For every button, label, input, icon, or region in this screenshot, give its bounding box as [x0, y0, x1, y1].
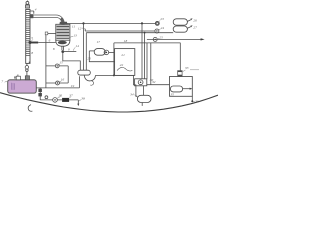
svg-text:26: 26 — [193, 18, 197, 22]
wire: vapor riser — [78, 76, 80, 88]
svg-text:13: 13 — [73, 34, 77, 38]
wire: drop 38 — [77, 100, 79, 105]
main line A — [67, 22, 156, 24]
column top fitting — [26, 0, 30, 8]
svg-text:34: 34 — [130, 93, 134, 97]
svg-text:5: 5 — [31, 36, 33, 40]
wire: bottoms line y75.4 — [96, 74, 134, 76]
tank right stub — [25, 76, 29, 80]
svg-text:6: 6 — [49, 38, 51, 42]
node A1 — [82, 22, 84, 24]
burner oval — [170, 86, 182, 92]
svg-text:17: 17 — [97, 40, 101, 44]
small curl under arc — [28, 105, 32, 112]
wire: feed line to condenser — [38, 42, 56, 44]
pump 36 — [53, 98, 58, 103]
furnace top valve — [177, 43, 182, 76]
tank left stub — [16, 76, 20, 80]
wire: upper tie line to condenser — [48, 33, 56, 35]
arrow row3 — [201, 38, 205, 40]
condenser bottom stub — [62, 46, 64, 50]
svg-text:38: 38 — [81, 96, 85, 100]
column bottom pump 8 — [25, 63, 28, 75]
box inner curve — [117, 67, 132, 71]
wire: drum34 feed — [142, 86, 144, 96]
wire: furnace feed — [147, 84, 170, 86]
label 34 leader — [134, 95, 137, 97]
collector header capsule — [78, 70, 91, 75]
svg-text:24: 24 — [161, 26, 165, 30]
wire: drop 18 to pumpbox — [146, 43, 148, 79]
wire: drop B2 to pumpbox — [144, 33, 146, 79]
wire: long vertical x=45.9 — [45, 35, 47, 88]
wire: riser between rows — [67, 66, 69, 83]
label 13 leader — [68, 36, 73, 38]
drum 17 — [94, 49, 105, 56]
pump 15 — [55, 64, 59, 68]
node on bottoms line — [113, 74, 115, 76]
svg-text:18: 18 — [124, 39, 128, 43]
wire: bottoms down to drum34 — [134, 75, 138, 96]
svg-text:21: 21 — [121, 53, 125, 57]
svg-text:4: 4 — [35, 8, 37, 12]
big bottom arc — [0, 93, 218, 112]
wire: drop A2 to pumpbox — [141, 23, 143, 78]
labels — [1, 8, 198, 104]
burner arrow — [183, 88, 190, 90]
wire: row15 — [46, 65, 68, 67]
wire: tank vapor line — [36, 87, 79, 89]
label 15 16 leaders — [57, 64, 71, 98]
line B to pump 24 — [85, 29, 155, 31]
svg-text:8: 8 — [53, 47, 55, 51]
label 5 — [31, 39, 33, 41]
pump 24 — [155, 29, 159, 33]
svg-text:25: 25 — [159, 35, 163, 39]
node B2 — [144, 32, 146, 34]
oval1 outlet arrow — [187, 20, 190, 22]
s-pipe from capsule — [84, 75, 95, 81]
junction node below condenser — [61, 50, 64, 53]
svg-text:20: 20 — [87, 56, 91, 60]
svg-text:39: 39 — [195, 100, 199, 104]
svg-text:12: 12 — [78, 26, 82, 30]
furnace box — [170, 77, 193, 97]
drain valve stack — [38, 88, 42, 100]
svg-text:33: 33 — [185, 66, 189, 70]
svg-text:36: 36 — [59, 93, 63, 97]
oval2 outlet arrow — [187, 27, 190, 28]
svg-text:19: 19 — [71, 84, 75, 88]
wire: drum inlet drop to box — [89, 51, 114, 62]
wire: thick feed segment — [30, 42, 38, 44]
svg-text:23: 23 — [160, 17, 164, 21]
feed junction dot on column — [29, 41, 32, 44]
column C1 body — [26, 10, 30, 64]
oval vessel 2 — [173, 26, 187, 32]
svg-text:32: 32 — [152, 80, 156, 84]
condenser bottom head — [56, 40, 70, 46]
label 38 leader — [79, 100, 82, 102]
tank left stub tick — [17, 75, 19, 77]
svg-text:16: 16 — [61, 78, 65, 82]
svg-text:9: 9 — [68, 48, 70, 52]
motor block 37 — [62, 98, 69, 102]
label 33 leader — [183, 70, 199, 72]
svg-text:11: 11 — [72, 24, 75, 28]
pump 16 — [56, 81, 60, 85]
label 4 — [30, 11, 34, 14]
wire: drop from B2 to capsule — [85, 33, 87, 70]
wire: drum inlet — [89, 50, 94, 52]
wire: drum34 outlet — [141, 103, 143, 106]
pump 23 — [155, 21, 159, 25]
small trap circle — [45, 96, 48, 99]
label 12 leader — [82, 27, 85, 30]
big box 21 — [115, 49, 135, 76]
line B2 — [86, 32, 173, 34]
pump 25 — [153, 37, 157, 41]
condenser E body — [56, 24, 70, 40]
label 7 leader — [5, 81, 8, 82]
svg-text:22: 22 — [120, 63, 124, 67]
valve on tie line — [45, 32, 48, 35]
pump box 30 — [135, 79, 147, 86]
svg-text:37: 37 — [69, 93, 73, 97]
label 14 leader — [73, 47, 75, 50]
svg-text:14: 14 — [75, 44, 79, 48]
wire: recycle riser — [150, 43, 152, 85]
oval vessel 1 — [173, 19, 187, 25]
wire: row16 — [46, 82, 68, 84]
svg-text:8: 8 — [31, 51, 33, 55]
svg-text:35: 35 — [171, 93, 175, 97]
wire: bottom pump row — [40, 99, 78, 101]
pump on drum — [104, 50, 109, 55]
line 18 — [114, 42, 181, 44]
svg-text:7: 7 — [1, 80, 3, 84]
label 23 leader — [157, 20, 160, 39]
small curl on s-pipe — [90, 81, 93, 85]
wire: condensate to capsule — [63, 52, 81, 71]
svg-text:15: 15 — [59, 61, 63, 65]
tank T7 (purple storage tank) — [8, 80, 37, 93]
svg-text:27: 27 — [193, 25, 197, 29]
node A2 — [141, 22, 143, 24]
wire: furnace drain to arc — [191, 96, 193, 101]
wire: drop from A to capsule — [83, 23, 85, 70]
wire: condensate stub right — [63, 51, 77, 53]
overhead vapor pipe (thick elbow) — [30, 14, 68, 25]
wire: drum pump outlet riser — [109, 51, 114, 53]
row3 line — [147, 38, 201, 40]
drum 34 — [137, 95, 151, 102]
